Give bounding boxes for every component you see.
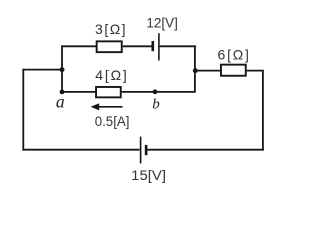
- node junction dot left outer: [60, 67, 65, 72]
- svg-text:3[Ω]: 3[Ω]: [95, 21, 126, 37]
- svg-text:12[V]: 12[V]: [146, 14, 178, 30]
- wire middle branch left of R2: [61, 91, 96, 93]
- svg-text:0.5[A]: 0.5[A]: [95, 113, 130, 129]
- node junction dot right: [193, 68, 198, 73]
- svg-text:b: b: [152, 96, 160, 112]
- wire bottom right segment: [147, 149, 264, 151]
- svg-text:15[V]: 15[V]: [131, 167, 166, 183]
- wire 6ohm branch right: [247, 70, 264, 72]
- svg-text:6[Ω]: 6[Ω]: [217, 47, 249, 63]
- battery V1 12V short plate: [152, 41, 155, 51]
- wire outer top-left horizontal: [22, 69, 62, 71]
- resistor R1 3 ohm box: [97, 41, 122, 52]
- wire left edge vertical: [22, 69, 24, 151]
- battery V1 12V long plate: [158, 33, 160, 60]
- wire 6ohm branch left: [195, 70, 221, 72]
- wire bottom left segment: [22, 149, 139, 151]
- current arrow 0.5A: [91, 103, 123, 110]
- battery V2 15V long plate: [140, 137, 142, 164]
- node a dot: [60, 90, 65, 95]
- wire top branch left of R1: [61, 45, 96, 47]
- battery V2 15V short plate: [145, 145, 148, 155]
- wire left inner vertical: [61, 45, 63, 92]
- wire right inner vertical: [194, 45, 196, 92]
- resistor R2 4 ohm box: [96, 87, 121, 97]
- node b dot: [153, 89, 158, 94]
- wire right edge vertical: [262, 71, 264, 151]
- resistor R3 6 ohm box: [221, 65, 246, 76]
- wire top branch right of battery: [160, 45, 196, 47]
- wire top branch between R1 and battery: [123, 45, 152, 47]
- svg-text:a: a: [56, 91, 65, 111]
- svg-text:4[Ω]: 4[Ω]: [95, 67, 127, 83]
- wire middle branch right of R2: [122, 91, 195, 93]
